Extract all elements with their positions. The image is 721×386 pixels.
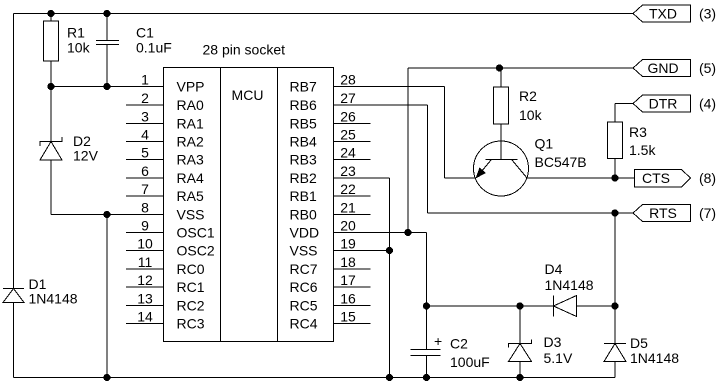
svg-text:19: 19 [340,236,356,252]
resistor R3 1.5k [608,104,657,179]
svg-text:14: 14 [137,309,153,325]
svg-text:VSS: VSS [177,207,205,223]
svg-text:0.1uF: 0.1uF [136,40,172,56]
node junction dot D3 top [516,302,523,309]
wire pin 2 stub (RA0) [126,90,204,113]
svg-text:RA1: RA1 [177,116,204,132]
op-amp 28 pin socket U1 MCU [164,42,334,342]
node junction dot R2 top [496,64,503,71]
svg-text:Q1: Q1 [535,136,554,152]
wire pin 12 stub (RC1) [126,272,205,295]
svg-text:RA2: RA2 [177,134,204,150]
svg-text:28 pin socket: 28 pin socket [203,42,286,58]
svg-text:RA3: RA3 [177,152,204,168]
wire pin 20 VDD to +V rail [371,233,427,307]
svg-text:+: + [434,333,442,349]
wire VPP (pin 1) row [51,86,164,88]
svg-text:22: 22 [340,181,356,197]
svg-text:R2: R2 [519,88,537,104]
svg-text:10k: 10k [67,40,91,56]
wire pin 18 stub (RC7) [290,254,371,277]
svg-text:RB2: RB2 [290,170,317,186]
connector GND (5) [633,60,716,77]
svg-text:RB3: RB3 [290,152,317,168]
svg-text:21: 21 [340,200,356,216]
wire pin 17 stub (RC6) [290,272,371,295]
svg-text:23: 23 [340,163,356,179]
svg-text:RB6: RB6 [290,97,317,113]
wire TXD top rail (node VPP drive) [14,13,634,15]
svg-text:5.1V: 5.1V [544,350,573,366]
svg-text:RA4: RA4 [177,170,204,186]
wire pin 23 stub (RB2) [290,163,371,186]
svg-text:9: 9 [141,218,149,234]
wire pin 26 stub (RB5) [290,109,371,132]
svg-text:12: 12 [137,272,153,288]
svg-text:1.5k: 1.5k [629,142,656,158]
svg-text:(7): (7) [699,205,716,221]
svg-text:RB1: RB1 [290,188,317,204]
svg-text:6: 6 [141,163,149,179]
svg-text:OSC1: OSC1 [177,225,215,241]
svg-text:2: 2 [141,90,149,106]
connector DTR (4) [633,95,716,112]
svg-text:1N4148: 1N4148 [545,277,594,293]
svg-text:RC7: RC7 [290,261,318,277]
wire pin 27 RB6 to RTS line [334,105,634,213]
svg-text:VDD: VDD [290,225,320,241]
node junction dot VSS riser at ground rail [103,374,110,381]
svg-text:24: 24 [340,145,356,161]
svg-text:3: 3 [141,109,149,125]
svg-text:R1: R1 [67,25,85,41]
wire pin 16 stub (RC5) [290,291,371,314]
svg-text:20: 20 [340,218,356,234]
svg-text:RTS: RTS [649,205,677,221]
svg-text:RB7: RB7 [290,79,317,95]
wire pin 22 stub (RB1) [290,181,371,204]
svg-text:13: 13 [137,291,153,307]
wire bottom ground rail [14,377,616,379]
wire pin 14 stub (RC3) [126,309,205,332]
zener diode D3 5.1V [509,306,573,378]
wire pin 28 RB7 to Q1 emitter [334,87,476,179]
svg-text:(3): (3) [699,6,716,22]
wire pin 20 stub (VDD) [290,218,371,241]
resistor R2 10k [494,68,543,160]
svg-text:DTR: DTR [649,96,678,112]
wire pin 19 stub (VSS) [290,236,371,259]
wire pin 3 stub (RA1) [126,109,204,132]
svg-text:17: 17 [340,272,356,288]
wire pin 24 stub (RB3) [290,145,371,168]
svg-text:RB0: RB0 [290,207,317,223]
wire pin 23 RB3 down to ground rail [334,178,390,378]
node junction dot RB3 riser at ground rail [386,374,393,381]
svg-text:(5): (5) [699,60,716,76]
wire pin 27 stub (RB6) [290,90,371,113]
svg-text:R3: R3 [629,124,647,140]
connector TXD (3) [633,5,716,22]
wire pin 8 stub (VSS) [126,200,205,223]
svg-text:15: 15 [340,309,356,325]
wire D2 bottom to VSS pin 8 [51,214,164,216]
svg-text:27: 27 [340,90,356,106]
svg-text:C2: C2 [450,336,468,352]
svg-text:RC4: RC4 [290,316,318,332]
svg-text:RC2: RC2 [177,298,205,314]
svg-text:MCU: MCU [232,87,264,103]
svg-text:RA5: RA5 [177,188,204,204]
wire pin 15 stub (RC4) [290,309,371,332]
zener diode D2 12V [40,87,99,215]
svg-text:C1: C1 [136,25,154,41]
svg-text:1N4148: 1N4148 [29,291,78,307]
transistor Q1 BC547B [474,136,587,197]
svg-text:1N4148: 1N4148 [630,350,679,366]
wire pin 10 stub (OSC2) [126,236,215,259]
svg-text:RC6: RC6 [290,279,318,295]
wire pin 28 stub (RB7) [290,72,371,95]
connector CTS (8) [635,170,717,188]
svg-text:VPP: VPP [177,79,205,95]
node junction dot VSS/GND riser [103,211,110,218]
svg-text:RC0: RC0 [177,261,205,277]
svg-text:RB4: RB4 [290,134,317,150]
svg-text:100uF: 100uF [450,354,490,370]
svg-text:4: 4 [141,127,149,143]
node junction dot D3 bottom [516,374,523,381]
wire pin 11 stub (RC0) [126,254,205,277]
svg-text:28: 28 [340,72,356,88]
wire Q1 collector to CTS [528,177,635,179]
capacitor C2 100uF [411,306,490,378]
wire VSS riser down to ground rail [106,215,108,378]
svg-text:RC5: RC5 [290,298,318,314]
svg-text:26: 26 [340,109,356,125]
diode D5 1N4148 [604,335,679,378]
wire pin 25 stub (RB4) [290,127,371,150]
svg-text:(8): (8) [699,170,716,186]
diode D1 1N4148 [3,276,78,378]
svg-text:(4): (4) [699,96,716,112]
wire pin 9 stub (OSC1) [126,218,215,241]
svg-text:RB5: RB5 [290,116,317,132]
svg-text:7: 7 [141,181,149,197]
capacitor C1 0.1uF [96,14,172,87]
svg-text:18: 18 [340,254,356,270]
svg-text:OSC2: OSC2 [177,243,215,259]
svg-text:RC1: RC1 [177,279,205,295]
svg-text:D3: D3 [544,334,562,350]
wire pin 4 stub (RA2) [126,127,204,150]
svg-text:16: 16 [340,291,356,307]
node junction dot RTS / D5 branch [611,209,618,216]
svg-text:25: 25 [340,127,356,143]
node junction dot R3 bottom / CTS [611,174,618,181]
svg-text:10: 10 [137,236,153,252]
wire left vertical from top rail to D1 [13,14,15,289]
resistor R1 10k [44,14,91,87]
wire pin 7 stub (RA5) [126,181,204,204]
svg-text:11: 11 [138,254,153,270]
svg-text:10k: 10k [519,107,543,123]
svg-text:GND: GND [647,60,678,76]
wire RTS node down to D5 [614,213,616,344]
wire pin 13 stub (RC2) [126,291,205,314]
svg-text:5: 5 [141,145,149,161]
node junction dots on VPP wire [47,83,110,90]
svg-text:D5: D5 [630,335,648,351]
wire +V rail (C2/D3/D4) [427,305,554,307]
node junction dot C2 top [423,302,430,309]
svg-text:8: 8 [141,200,149,216]
svg-text:VSS: VSS [290,243,318,259]
wire pin 21 stub (RB0) [290,200,371,223]
svg-text:RA0: RA0 [177,97,204,113]
wire pin 5 stub (RA3) [126,145,204,168]
svg-text:CTS: CTS [642,170,670,186]
svg-text:D4: D4 [545,261,563,277]
node junction dot GND-to-VDD tie [404,229,411,236]
connector RTS (7) [633,205,716,222]
svg-text:1: 1 [141,72,149,88]
node junction dots on top rail [47,10,110,17]
wire pin 1 stub (VPP) [126,72,205,95]
diode D4 1N4148 [520,261,615,317]
node junction dot pin 19 VSS to RB3 riser [371,247,394,254]
wire pin 6 stub (RA4) [126,163,204,186]
wire GND line to VDD tie [408,68,633,233]
svg-text:TXD: TXD [649,6,677,22]
svg-text:12V: 12V [73,148,99,164]
svg-text:RC3: RC3 [177,316,205,332]
node junction dot D4/D5/RTS node [611,302,618,309]
svg-text:BC547B: BC547B [535,154,587,170]
node junction dot C2 bottom [423,374,430,381]
